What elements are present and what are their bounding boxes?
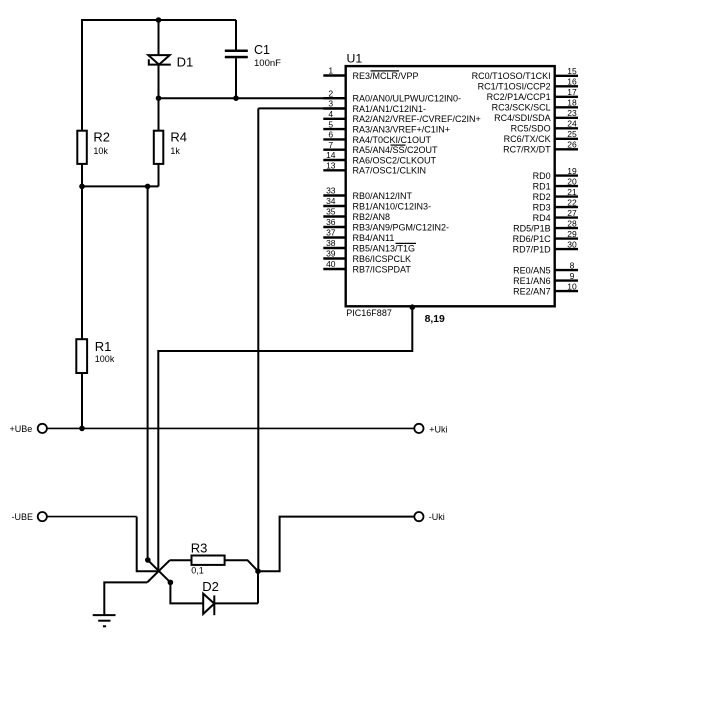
svg-text:8,19: 8,19 <box>425 314 445 325</box>
svg-text:RC1/T1OSI/CCP2: RC1/T1OSI/CCP2 <box>478 82 551 92</box>
svg-text:3: 3 <box>328 99 333 109</box>
svg-text:RA2/AN2/VREF-/CVREF/C2IN+: RA2/AN2/VREF-/CVREF/C2IN+ <box>353 114 481 124</box>
svg-text:RE3/MCLR/VPP: RE3/MCLR/VPP <box>353 71 419 81</box>
svg-text:7: 7 <box>328 140 333 150</box>
svg-text:RE0/AN5: RE0/AN5 <box>513 266 551 276</box>
svg-text:29: 29 <box>567 229 577 239</box>
svg-text:RB3/AN9/PGM/C12IN2-: RB3/AN9/PGM/C12IN2- <box>353 222 450 232</box>
svg-text:6: 6 <box>328 130 333 140</box>
svg-text:100nF: 100nF <box>254 58 281 69</box>
svg-text:100k: 100k <box>95 354 115 364</box>
svg-text:23: 23 <box>567 108 577 118</box>
svg-text:RB1/AN10/C12IN3-: RB1/AN10/C12IN3- <box>353 201 432 211</box>
svg-text:RA3/AN3/VREF+/C1IN+: RA3/AN3/VREF+/C1IN+ <box>353 125 451 135</box>
svg-text:-UBE: -UBE <box>12 512 34 522</box>
svg-text:RA4/T0CKI/C1OUT: RA4/T0CKI/C1OUT <box>353 135 432 145</box>
svg-text:RC0/T1OSO/T1CKI: RC0/T1OSO/T1CKI <box>472 71 551 81</box>
svg-text:10: 10 <box>567 281 577 291</box>
svg-text:RD2: RD2 <box>533 192 551 202</box>
svg-text:C1: C1 <box>254 43 270 57</box>
svg-text:RD0: RD0 <box>533 171 551 181</box>
svg-text:40: 40 <box>326 259 336 269</box>
svg-text:R3: R3 <box>191 540 208 555</box>
svg-text:RC4/SDI/SDA: RC4/SDI/SDA <box>494 113 551 123</box>
svg-text:R4: R4 <box>170 130 187 145</box>
svg-text:28: 28 <box>567 218 577 228</box>
svg-text:RD5/P1B: RD5/P1B <box>513 224 551 234</box>
svg-text:1: 1 <box>328 66 333 76</box>
svg-text:27: 27 <box>567 208 577 218</box>
svg-text:35: 35 <box>326 207 336 217</box>
svg-text:RD7/P1D: RD7/P1D <box>513 245 552 255</box>
svg-text:36: 36 <box>326 217 336 227</box>
svg-text:26: 26 <box>567 140 577 150</box>
svg-text:39: 39 <box>326 249 336 259</box>
svg-text:16: 16 <box>567 77 577 87</box>
svg-text:R1: R1 <box>95 339 112 354</box>
svg-text:RD4: RD4 <box>533 213 551 223</box>
svg-text:20: 20 <box>567 176 577 186</box>
svg-text:8: 8 <box>570 260 575 270</box>
svg-text:RD6/P1C: RD6/P1C <box>513 234 552 244</box>
svg-text:RE1/AN6: RE1/AN6 <box>513 276 551 286</box>
svg-text:18: 18 <box>567 98 577 108</box>
svg-text:RA7/OSC1/CLKIN: RA7/OSC1/CLKIN <box>353 166 427 176</box>
svg-text:D2: D2 <box>202 579 219 594</box>
svg-text:38: 38 <box>326 238 336 248</box>
svg-text:RB5/AN13/T1G: RB5/AN13/T1G <box>353 243 416 253</box>
svg-text:13: 13 <box>326 161 336 171</box>
svg-text:RD3: RD3 <box>533 203 551 213</box>
svg-text:RE2/AN7: RE2/AN7 <box>513 287 551 297</box>
svg-text:21: 21 <box>567 187 577 197</box>
svg-text:RD1: RD1 <box>533 182 551 192</box>
svg-text:RB2/AN8: RB2/AN8 <box>353 212 391 222</box>
svg-text:37: 37 <box>326 228 336 238</box>
svg-text:5: 5 <box>328 119 333 129</box>
svg-text:-Uki: -Uki <box>429 512 445 522</box>
svg-text:D1: D1 <box>177 54 194 69</box>
svg-text:14: 14 <box>326 150 336 160</box>
svg-text:15: 15 <box>567 66 577 76</box>
svg-text:U1: U1 <box>347 51 363 65</box>
svg-text:PIC16F887: PIC16F887 <box>346 308 392 318</box>
svg-text:25: 25 <box>567 129 577 139</box>
svg-text:24: 24 <box>567 119 577 129</box>
svg-text:RB7/ICSPDAT: RB7/ICSPDAT <box>353 264 412 274</box>
svg-text:R2: R2 <box>93 130 110 145</box>
svg-text:RB4/AN11: RB4/AN11 <box>353 233 395 243</box>
svg-text:RC7/RX/DT: RC7/RX/DT <box>503 145 551 155</box>
svg-text:34: 34 <box>326 196 336 206</box>
svg-text:4: 4 <box>328 109 333 119</box>
svg-text:RC2/P1A/CCP1: RC2/P1A/CCP1 <box>487 92 551 102</box>
svg-text:+Uki: +Uki <box>429 424 447 434</box>
svg-text:RA6/OSC2/CLKOUT: RA6/OSC2/CLKOUT <box>353 155 437 165</box>
svg-text:33: 33 <box>326 186 336 196</box>
svg-text:RA5/AN4/SS/C2OUT: RA5/AN4/SS/C2OUT <box>353 145 439 155</box>
svg-text:22: 22 <box>567 197 577 207</box>
svg-text:10k: 10k <box>93 146 108 156</box>
svg-text:RC5/SDO: RC5/SDO <box>511 124 551 134</box>
svg-text:0,1: 0,1 <box>191 566 204 576</box>
svg-text:1k: 1k <box>170 146 180 156</box>
svg-text:19: 19 <box>567 166 577 176</box>
svg-text:9: 9 <box>570 271 575 281</box>
svg-text:RB6/ICSPCLK: RB6/ICSPCLK <box>353 254 412 264</box>
svg-text:2: 2 <box>328 88 333 98</box>
svg-text:RC6/TX/CK: RC6/TX/CK <box>504 134 551 144</box>
svg-text:RB0/AN12/INT: RB0/AN12/INT <box>353 191 413 201</box>
svg-text:RC3/SCK/SCL: RC3/SCK/SCL <box>492 103 551 113</box>
svg-text:30: 30 <box>567 239 577 249</box>
svg-text:RA1/AN1/C12IN1-: RA1/AN1/C12IN1- <box>353 104 427 114</box>
svg-text:+UBe: +UBe <box>10 424 33 434</box>
svg-text:RA0/AN0/ULPWU/C12IN0-: RA0/AN0/ULPWU/C12IN0- <box>353 94 462 104</box>
svg-text:17: 17 <box>567 87 577 97</box>
